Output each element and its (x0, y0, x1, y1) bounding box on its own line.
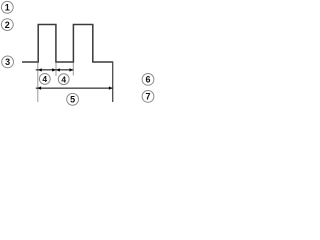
node 7 label (142, 91, 154, 103)
node 6 label (142, 74, 154, 86)
wire: extension line below first rising edge (37, 63, 39, 103)
wire: extension line below second rising edge (72, 63, 74, 76)
dimension line 5 (total period) (36, 87, 113, 89)
node 5 label (period) (67, 93, 79, 105)
svg-text:4: 4 (61, 74, 66, 84)
svg-text:2: 2 (5, 20, 10, 30)
svg-text:4: 4 (42, 74, 47, 84)
node 4 label (pulse width) (39, 74, 50, 85)
svg-text:5: 5 (70, 95, 75, 105)
svg-text:6: 6 (145, 75, 150, 85)
wire: right extension drop at x=112.7 (112, 61, 114, 102)
dimension line 4 (pulse width + gap) (36, 69, 73, 71)
svg-text:7: 7 (145, 92, 150, 102)
waveform pulse train (22, 25, 113, 63)
node 4 label (gap width) (58, 74, 69, 85)
node 3 label (2, 56, 14, 68)
svg-text:3: 3 (5, 57, 10, 67)
svg-text:1: 1 (5, 3, 10, 13)
node 2 label (1, 19, 13, 31)
wire: extension line below first falling edge (55, 63, 57, 77)
node 1 label (1, 1, 13, 13)
